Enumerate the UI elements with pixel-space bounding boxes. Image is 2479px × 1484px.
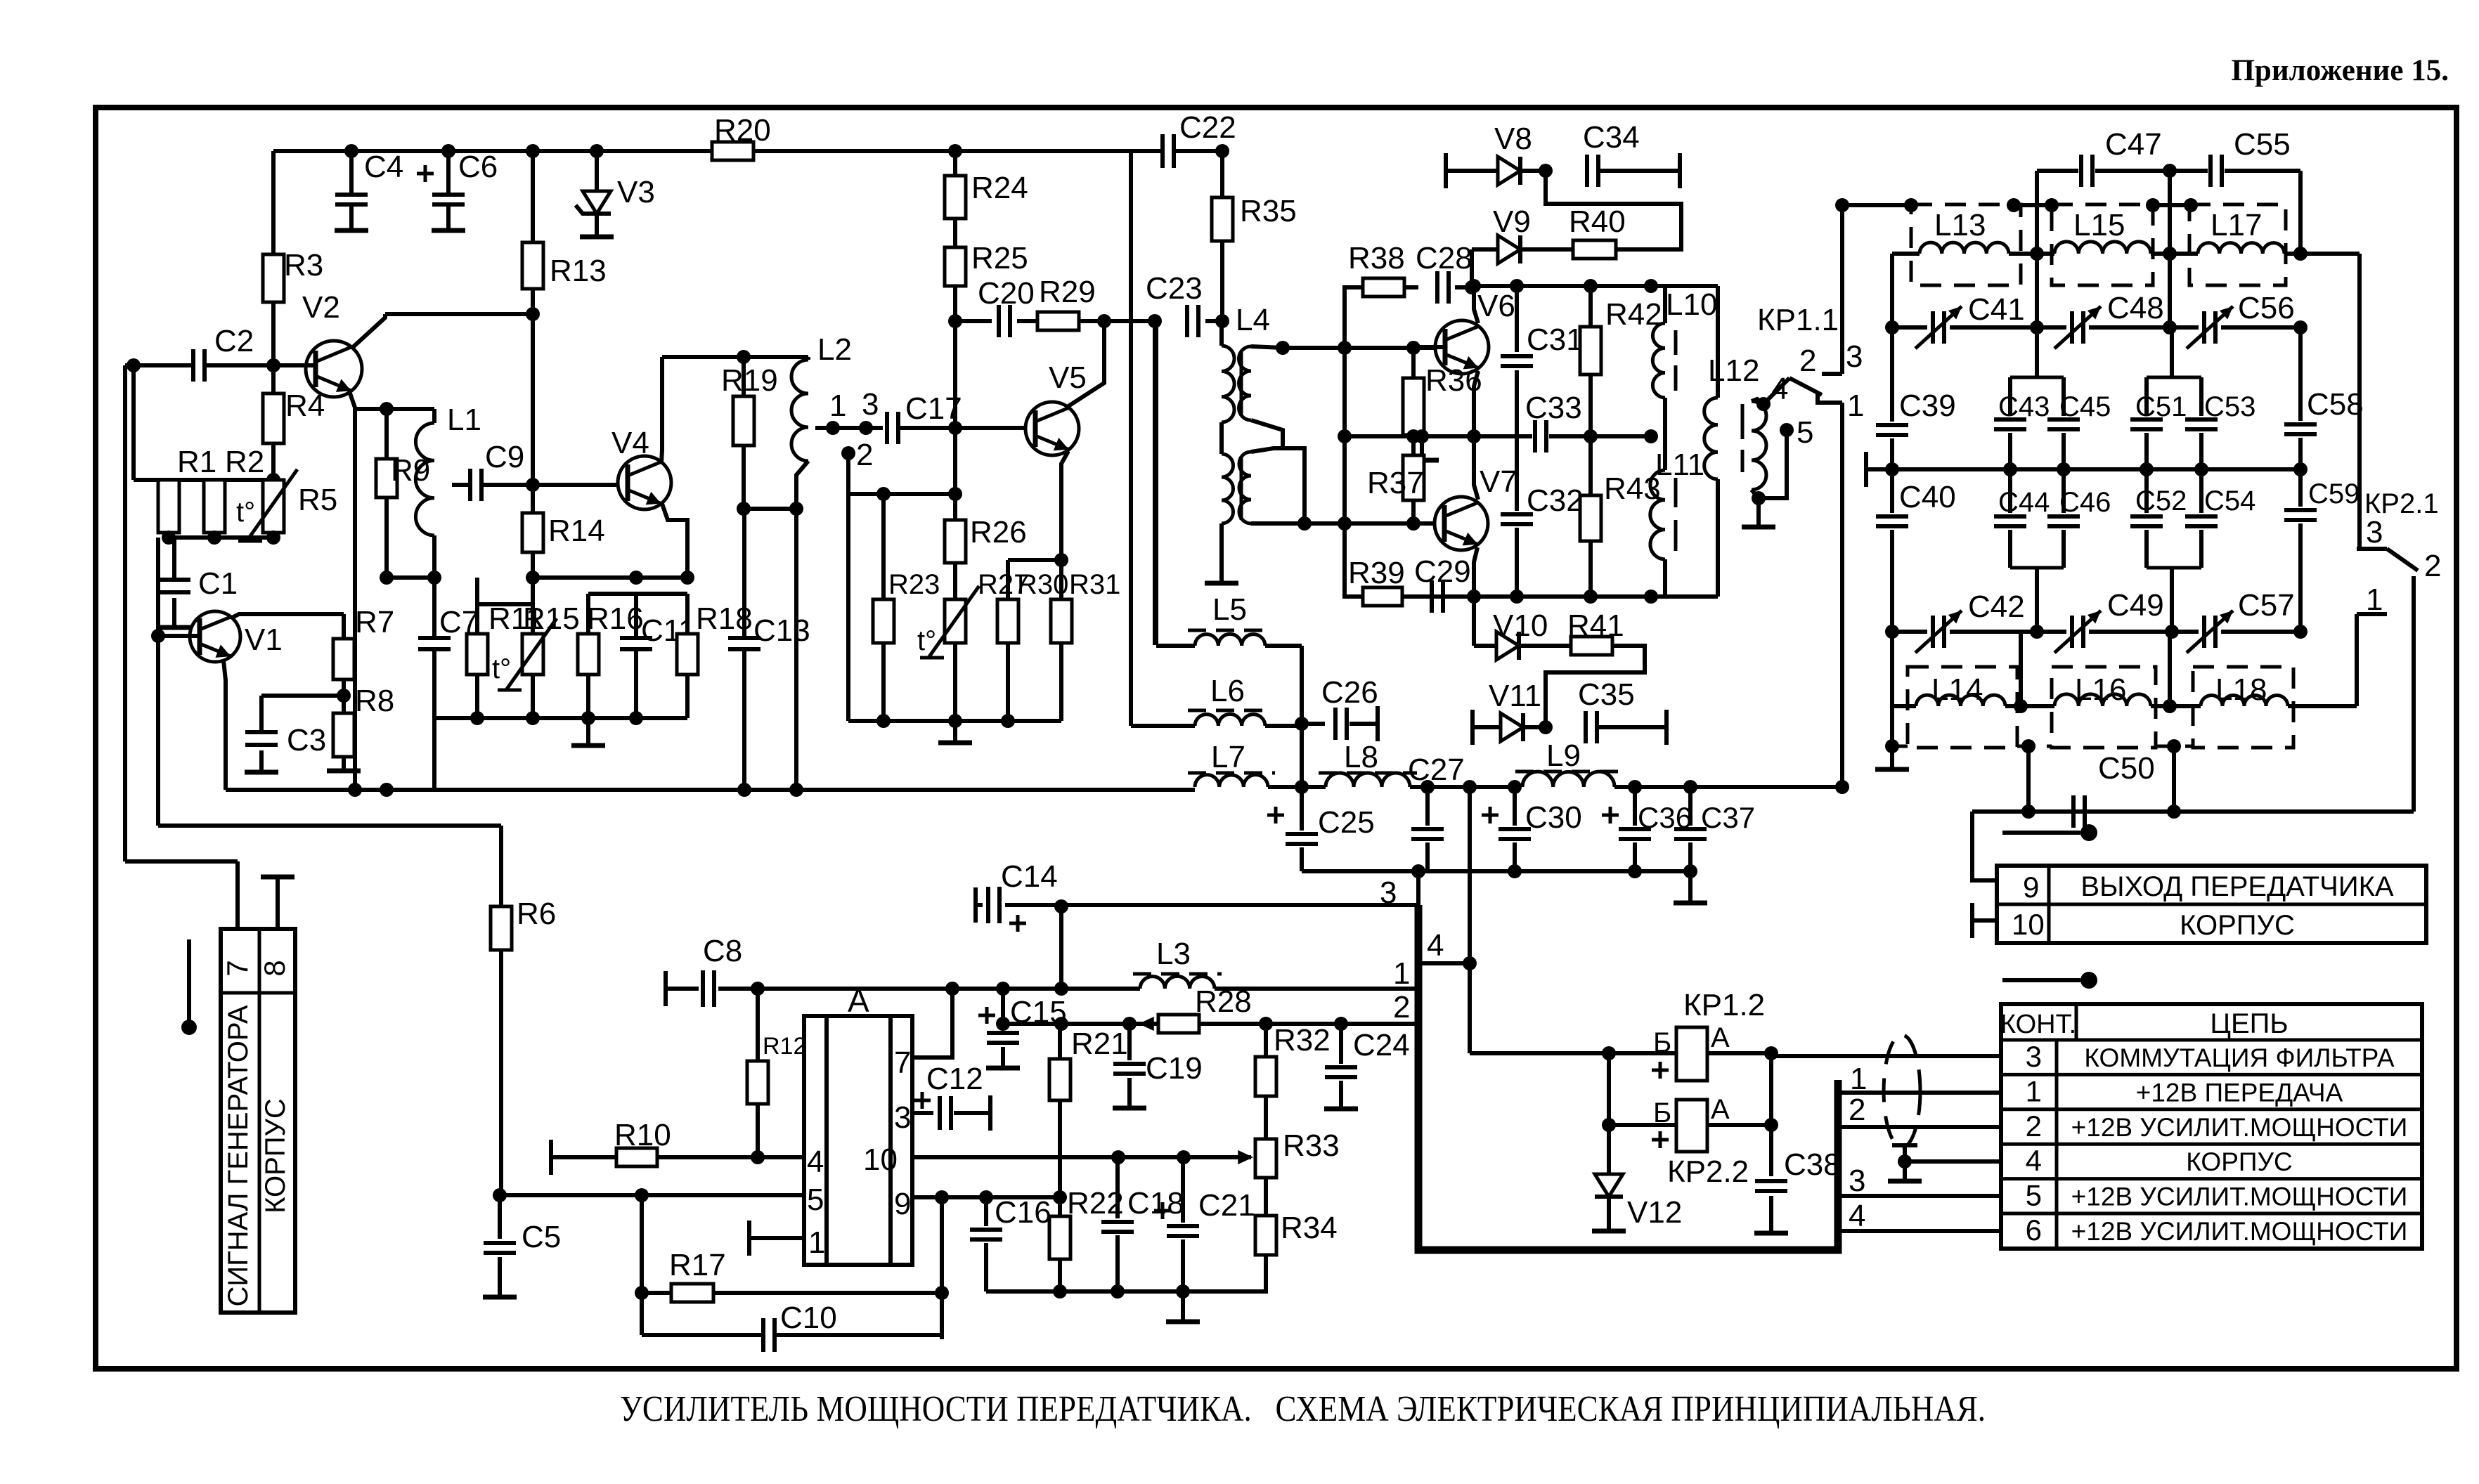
svg-text:9: 9	[894, 1187, 911, 1221]
capacitor C31	[1515, 286, 1519, 352]
resistor R32	[1255, 1057, 1276, 1096]
svg-text:C23: C23	[1146, 271, 1203, 306]
capacitor C15 polarized	[1001, 989, 1005, 1029]
wire V1 collector to R7	[232, 614, 344, 618]
svg-text:C29: C29	[1414, 554, 1471, 589]
wire V2 emitter down to bus	[349, 391, 355, 790]
wire mid rail left	[1345, 434, 1474, 438]
wire node row	[387, 575, 434, 580]
inductor L16 dashed box	[2052, 667, 2156, 748]
resistor R8	[333, 713, 354, 757]
svg-text:R12: R12	[763, 1033, 806, 1060]
svg-text:C45: C45	[2059, 391, 2111, 422]
wire pin10 korpus terminal	[1970, 903, 1974, 938]
svg-text:L17: L17	[2211, 208, 2262, 242]
capacitor C7	[432, 578, 436, 639]
svg-text:L1: L1	[447, 403, 481, 437]
resistor R2	[204, 480, 225, 533]
svg-text:КР1.2: КР1.2	[1683, 988, 1765, 1022]
wire relay row 1	[1470, 1051, 1609, 1055]
svg-text:5: 5	[1797, 415, 1813, 450]
table KONT TSEP	[2001, 1004, 2422, 1249]
svg-text:V8: V8	[1494, 122, 1532, 156]
svg-text:R26: R26	[970, 515, 1027, 549]
wire chip pin7 to rail	[912, 989, 952, 1057]
svg-text:2: 2	[2026, 1109, 2042, 1143]
inductor L15	[2054, 242, 2151, 254]
svg-text:R21: R21	[1071, 1027, 1128, 1061]
svg-text:R38: R38	[1348, 241, 1405, 275]
inductor L7	[1195, 775, 1268, 787]
svg-text:9: 9	[2023, 871, 2039, 904]
svg-text:R42: R42	[1605, 297, 1662, 332]
svg-text:R15: R15	[523, 601, 580, 636]
svg-text:1: 1	[2366, 582, 2383, 617]
inductor L14	[1916, 695, 2005, 706]
svg-text:+12В УСИЛИТ.МОЩНОСТИ: +12В УСИЛИТ.МОЩНОСТИ	[2071, 1183, 2408, 1211]
cable dashed ellipse	[1884, 1035, 1920, 1147]
wire R bottoms rail	[166, 535, 274, 540]
svg-text:C28: C28	[1416, 241, 1472, 275]
resistor R20	[712, 142, 753, 160]
inductor L12 secondary	[1752, 401, 1766, 490]
svg-text:3: 3	[1846, 339, 1863, 374]
wire net4 long vertical	[1468, 787, 1472, 1053]
svg-text:R22: R22	[1067, 1186, 1124, 1221]
inductor L9	[1522, 772, 1614, 787]
wire bias bottom rail	[848, 719, 1061, 723]
wire C42 row risers down	[1890, 632, 1894, 746]
capacitor C30 polarized	[1513, 787, 1517, 826]
arrow marker above table KONT	[2002, 978, 2080, 982]
svg-text:C27: C27	[1408, 753, 1465, 787]
svg-text:4: 4	[2026, 1144, 2042, 1177]
svg-text:C33: C33	[1525, 391, 1582, 425]
inductor L14 dashed box	[1908, 667, 2017, 748]
resistor R4	[271, 365, 276, 393]
wire V1 emitter to bus	[224, 660, 226, 790]
svg-text:ЦЕПЬ: ЦЕПЬ	[2210, 1008, 2288, 1039]
svg-text:C10: C10	[780, 1301, 837, 1335]
svg-text:1: 1	[808, 1225, 825, 1260]
svg-text:C21: C21	[1198, 1188, 1255, 1223]
wire KP1.1 contact 1 down	[1840, 403, 1844, 787]
resistor R19	[742, 357, 746, 396]
svg-text:Б: Б	[1653, 1027, 1671, 1058]
svg-text:C32: C32	[1527, 483, 1584, 518]
resistor R25	[945, 247, 966, 286]
wire L1 tap to C9	[452, 483, 470, 487]
svg-text:C48: C48	[2107, 291, 2164, 325]
svg-text:C59: C59	[2308, 479, 2360, 509]
wire chip pin9 row	[912, 1195, 1059, 1199]
svg-text:C58: C58	[2307, 387, 2364, 422]
wire V6 base	[1413, 345, 1445, 349]
svg-text:R29: R29	[1039, 275, 1096, 309]
diode V10 R41 row	[1472, 597, 1476, 646]
svg-text:2: 2	[1799, 344, 1816, 378]
wire top supply rail	[273, 149, 712, 153]
inductor L17	[2198, 243, 2284, 254]
svg-text:R13: R13	[550, 254, 607, 288]
wire input node to C2	[125, 363, 193, 367]
svg-text:C25: C25	[1318, 805, 1375, 840]
wire bias row	[134, 478, 273, 482]
svg-text:V4: V4	[611, 426, 649, 460]
capacitor C2	[191, 349, 195, 382]
wire L2 pin2	[841, 446, 855, 460]
wire mid row	[1864, 452, 1868, 487]
svg-text:2: 2	[1393, 990, 1410, 1024]
svg-text:C54: C54	[2204, 486, 2255, 516]
inductor L4 transformer primary	[1219, 321, 1224, 346]
arrow marker above table 9	[2002, 831, 2080, 835]
inductor L18 dashed box	[2193, 667, 2293, 748]
svg-text:C1: C1	[198, 566, 238, 601]
resistor R21	[1058, 1024, 1062, 1059]
wire chip pin5 row	[500, 1193, 804, 1197]
wire L2 taps	[815, 426, 883, 430]
transistor V2	[306, 341, 362, 397]
capacitor C18	[1115, 1157, 1120, 1218]
capacitor C25 polarized	[1300, 787, 1304, 831]
svg-text:R20: R20	[714, 113, 771, 148]
inductor L6	[1195, 714, 1265, 726]
svg-text:V3: V3	[617, 175, 655, 209]
capacitor C32	[1515, 436, 1519, 511]
svg-text:4: 4	[807, 1145, 824, 1179]
svg-text:C26: C26	[1321, 675, 1378, 710]
wire L6 node down to L7 row	[1300, 724, 1304, 787]
svg-text:УСИЛИТЕЛЬ МОЩНОСТИ ПЕРЕДАТЧИКА: УСИЛИТЕЛЬ МОЩНОСТИ ПЕРЕДАТЧИКА. СХЕМА ЭЛ…	[620, 1389, 1986, 1429]
inductor L18	[2201, 695, 2288, 706]
svg-text:V11: V11	[1489, 679, 1541, 713]
wire L8 to C30 node	[1428, 785, 1515, 789]
svg-text:C20: C20	[978, 276, 1035, 311]
capacitor C4	[349, 151, 354, 195]
capacitor C47	[2079, 155, 2083, 187]
svg-text:C35: C35	[1578, 677, 1635, 712]
svg-text:+12В УСИЛИТ.МОЩНОСТИ: +12В УСИЛИТ.МОЩНОСТИ	[2071, 1113, 2408, 1142]
svg-text:3: 3	[894, 1100, 911, 1135]
thermistor R5	[263, 480, 284, 533]
resistor R12	[756, 989, 760, 1061]
svg-text:КОНТ.: КОНТ.	[2000, 1010, 2076, 1039]
resistor R26	[945, 520, 966, 563]
svg-text:R40: R40	[1569, 204, 1626, 239]
svg-text:А: А	[848, 982, 869, 1019]
svg-text:R32: R32	[1274, 1023, 1331, 1057]
resistor R24	[945, 176, 966, 219]
resistor R17	[640, 1195, 644, 1293]
svg-text:R28: R28	[1195, 984, 1252, 1019]
svg-text:V5: V5	[1049, 360, 1087, 395]
inductor L5	[1154, 321, 1158, 645]
svg-text:t°: t°	[492, 653, 511, 684]
node R8	[342, 679, 346, 713]
svg-text:R5: R5	[298, 483, 337, 517]
wire R28 row net 2	[1003, 1022, 1418, 1026]
svg-text:t°: t°	[236, 497, 255, 528]
inductor L4 secondary upper	[1239, 346, 1252, 420]
svg-text:C2: C2	[214, 324, 254, 358]
resistor R28	[1158, 1015, 1199, 1033]
wire R3 column	[271, 151, 276, 254]
svg-text:L13: L13	[1934, 208, 1986, 242]
wire output to table 9	[1972, 809, 2414, 814]
svg-text:1: 1	[2026, 1074, 2042, 1107]
svg-text:L6: L6	[1210, 674, 1245, 708]
wire R6 column	[499, 826, 503, 906]
svg-text:C8: C8	[703, 934, 742, 968]
wire R38 column	[1342, 285, 1347, 523]
svg-text:C5: C5	[522, 1220, 561, 1254]
svg-text:1: 1	[1847, 389, 1864, 423]
wire V4 collector up	[661, 357, 662, 464]
svg-text:Приложение 15.: Приложение 15.	[2231, 54, 2449, 87]
variable capacitor C48	[2070, 311, 2074, 344]
svg-text:КР2.2: КР2.2	[1667, 1154, 1749, 1189]
svg-text:3: 3	[2026, 1040, 2042, 1073]
wire terminal 5	[1780, 423, 1794, 437]
svg-text:C56: C56	[2238, 291, 2295, 325]
svg-text:3: 3	[1849, 1164, 1865, 1198]
chip A outline	[804, 1016, 912, 1265]
svg-text:7: 7	[221, 960, 254, 976]
svg-text:L12: L12	[1708, 353, 1759, 388]
svg-text:R35: R35	[1240, 194, 1297, 228]
svg-text:C30: C30	[1525, 800, 1582, 835]
inductor L16	[2054, 694, 2151, 706]
svg-text:L5: L5	[1212, 592, 1247, 627]
capacitor C11	[634, 594, 638, 639]
wire L17 out to KP2.1	[2300, 252, 2360, 256]
variable capacitor C49	[2070, 616, 2074, 648]
capacitor C12 on pin3	[912, 1111, 933, 1115]
input connector table	[221, 929, 295, 1313]
capacitor pair C51 C53	[2170, 327, 2174, 377]
capacitor C39	[1890, 327, 1894, 422]
svg-text:+12В ПЕРЕДАЧА: +12В ПЕРЕДАЧА	[2136, 1078, 2343, 1107]
svg-text:C51: C51	[2135, 391, 2187, 422]
wire R19 L2 bottom row	[744, 507, 796, 511]
capacitor C24	[1339, 1024, 1343, 1064]
variable capacitor C57	[2202, 616, 2206, 648]
svg-text:C49: C49	[2107, 588, 2164, 623]
resistor R11	[475, 578, 479, 604]
wire C39 column top	[1890, 254, 1894, 327]
wire pin9 riser to R17 row	[940, 1197, 944, 1339]
capacitor C33 in mid rail	[1474, 434, 1532, 438]
svg-text:C24: C24	[1353, 1028, 1410, 1062]
wire chip pin4 row	[551, 1155, 616, 1159]
capacitor C16	[984, 1197, 988, 1226]
thermistor R15	[522, 634, 543, 675]
svg-text:L3: L3	[1156, 937, 1191, 971]
ground bias network	[953, 721, 957, 741]
wire long vertical C22 node	[1129, 151, 1133, 726]
transistor V5	[1025, 402, 1079, 455]
svg-text:КОРПУС: КОРПУС	[2180, 910, 2295, 941]
capacitor C17	[885, 412, 889, 444]
wire filter top row C47 C55	[2037, 169, 2078, 173]
svg-text:R19: R19	[721, 363, 778, 398]
svg-text:КОРПУС: КОРПУС	[260, 1098, 291, 1213]
capacitor C5	[498, 1195, 502, 1239]
svg-text:R41: R41	[1567, 608, 1624, 643]
resistor R40	[1573, 240, 1616, 259]
capacitor C19	[1127, 1024, 1132, 1060]
capacitor C8	[664, 971, 668, 1006]
wire V6 top rail	[1474, 286, 1478, 323]
wire R13 to C9 node	[531, 289, 535, 485]
svg-text:C4: C4	[364, 150, 403, 184]
zener diode V3	[595, 151, 599, 191]
wire V7 emitter	[1474, 547, 1477, 597]
svg-text:C41: C41	[1968, 292, 2025, 327]
wire korpus row with ground	[1905, 1159, 2001, 1164]
wire bottom rail V7	[1402, 594, 1718, 599]
wire V6 emitter V7 collector node	[1474, 371, 1478, 436]
svg-text:R14: R14	[548, 514, 605, 548]
resistor R6	[491, 906, 512, 950]
svg-text:L15: L15	[2073, 208, 2125, 242]
capacitor C10	[640, 1293, 644, 1335]
diode V12	[1607, 1125, 1611, 1174]
svg-text:C9: C9	[485, 440, 524, 474]
inductor L13 dashed box	[1911, 204, 2021, 285]
resistor R39	[1363, 587, 1402, 606]
wire C50 row	[2026, 746, 2031, 812]
wire V4 emitter down	[661, 502, 687, 578]
svg-text:V6: V6	[1477, 289, 1515, 323]
wire C42 row	[1892, 630, 1927, 634]
capacitor C13	[742, 509, 746, 639]
capacitor C22	[1131, 149, 1161, 153]
wire row B links	[1842, 203, 1911, 207]
capacitor C20	[997, 305, 1001, 337]
transistor V1	[190, 611, 240, 662]
resistor R29	[1037, 312, 1079, 330]
svg-text:C18: C18	[1127, 1186, 1184, 1221]
svg-text:C16: C16	[995, 1195, 1051, 1230]
svg-text:5: 5	[2026, 1179, 2042, 1212]
svg-text:V12: V12	[1627, 1195, 1682, 1230]
svg-text:C46: C46	[2059, 487, 2111, 518]
svg-text:L9: L9	[1546, 738, 1581, 773]
svg-text:8: 8	[258, 960, 291, 976]
inductor L15 dashed box	[2052, 204, 2153, 285]
relay coil KP2.2	[1607, 1053, 1611, 1125]
svg-text:1: 1	[829, 389, 846, 423]
capacitor C3	[261, 694, 344, 698]
capacitor pair C44 C46	[2008, 469, 2012, 513]
wire R9 column top	[380, 402, 394, 416]
svg-text:L11: L11	[1655, 448, 1704, 482]
wire C14 node down to R21 row	[1059, 905, 1063, 989]
svg-text:C57: C57	[2238, 588, 2295, 623]
svg-text:C3: C3	[287, 723, 326, 757]
svg-text:C52: C52	[2135, 486, 2187, 516]
inductor L1	[432, 409, 436, 423]
capacitor pair C52 C54	[2144, 469, 2149, 513]
svg-text:C31: C31	[1527, 323, 1584, 357]
resistor R16	[586, 594, 590, 634]
transistor V4	[618, 456, 671, 509]
capacitor C37	[1688, 787, 1692, 826]
wire filter bottom rail net 3	[1302, 869, 1690, 873]
svg-text:R8: R8	[355, 684, 394, 718]
transistor V6	[1435, 320, 1489, 374]
svg-text:Б: Б	[1653, 1098, 1671, 1128]
inductor L2	[798, 355, 808, 359]
capacitor C29	[1430, 580, 1434, 613]
inductor L13	[1920, 242, 2009, 254]
svg-text:R17: R17	[669, 1248, 726, 1282]
transistor V7	[1435, 497, 1488, 550]
svg-text:C42: C42	[1968, 590, 2025, 624]
wire V7 base row	[1255, 521, 1435, 526]
table VYHOD PEREDATCHIKA	[1997, 866, 2426, 943]
svg-text:3: 3	[862, 387, 879, 422]
svg-text:C22: C22	[1179, 110, 1236, 145]
svg-text:2: 2	[856, 438, 873, 472]
svg-text:R6: R6	[517, 897, 556, 931]
resistor R38	[1345, 285, 1363, 289]
diode V9 and R40 feedback	[1470, 249, 1474, 287]
inductor L11	[1663, 436, 1667, 470]
capacitor C36 polarized	[1633, 787, 1637, 826]
capacitor C40	[1890, 469, 1894, 513]
capacitor C14 polarized	[973, 887, 978, 923]
wire V1 base from bias rail	[156, 538, 160, 636]
svg-text:R7: R7	[355, 605, 394, 639]
capacitor C27	[1425, 787, 1430, 826]
svg-text:КОРПУС: КОРПУС	[2186, 1147, 2292, 1176]
svg-text:R1: R1	[177, 445, 216, 479]
svg-text:C53: C53	[2204, 391, 2255, 422]
wire main ground bus	[226, 788, 1195, 792]
svg-text:R25: R25	[971, 241, 1028, 275]
svg-text:L2: L2	[817, 332, 852, 367]
resistor R37	[1403, 455, 1424, 500]
resistor R30	[1006, 560, 1010, 599]
svg-text:C37: C37	[1701, 801, 1755, 834]
svg-text:R2: R2	[225, 445, 264, 479]
wire pin8 ground	[276, 879, 280, 929]
wire V6 base row	[1283, 346, 1436, 350]
svg-text:+12В УСИЛИТ.МОЩНОСТИ: +12В УСИЛИТ.МОЩНОСТИ	[2071, 1217, 2408, 1246]
svg-text:2: 2	[2424, 549, 2441, 583]
svg-text:4: 4	[1849, 1199, 1865, 1233]
svg-text:А: А	[1711, 1022, 1730, 1053]
svg-text:А: А	[1711, 1094, 1730, 1125]
capacitor C6	[446, 151, 451, 195]
svg-text:V9: V9	[1493, 204, 1531, 239]
resistor R34	[1264, 1178, 1268, 1216]
wire bias network box R23 R26 R27 R30 R31	[846, 494, 850, 721]
svg-text:7: 7	[894, 1046, 911, 1080]
wire R25 to C20	[955, 319, 992, 323]
svg-text:C50: C50	[2098, 751, 2155, 786]
svg-text:2: 2	[1849, 1093, 1865, 1127]
svg-text:10: 10	[2012, 908, 2045, 941]
svg-text:L7: L7	[1211, 740, 1245, 774]
capacitor C1	[172, 538, 176, 581]
resistor R36	[1411, 348, 1416, 378]
inductor L10	[1663, 286, 1667, 323]
svg-text:КОММУТАЦИЯ ФИЛЬТРА: КОММУТАЦИЯ ФИЛЬТРА	[2084, 1043, 2394, 1072]
